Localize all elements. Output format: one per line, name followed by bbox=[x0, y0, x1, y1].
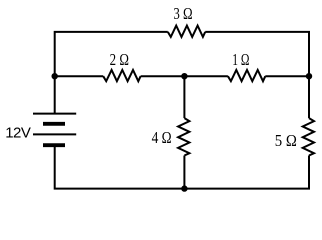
resistor R4 4ohm vertical bbox=[178, 118, 189, 155]
battery plate short thick bbox=[43, 122, 65, 126]
resistor R5 5ohm vertical bbox=[303, 118, 314, 155]
resistor R2 2ohm bbox=[103, 70, 140, 81]
battery plate long top bbox=[33, 113, 76, 115]
svg-text:4 Ω: 4 Ω bbox=[152, 129, 172, 148]
node left junction bbox=[52, 73, 58, 79]
wire middle right segment bbox=[265, 75, 309, 77]
svg-text:12V: 12V bbox=[5, 124, 31, 141]
node middle junction bbox=[181, 73, 187, 79]
node bottom junction bbox=[181, 185, 187, 191]
battery plate short thick bottom bbox=[43, 143, 65, 147]
wire bottom right segment bbox=[184, 156, 309, 189]
resistor R1 1ohm bbox=[228, 70, 265, 81]
node right junction bbox=[306, 73, 312, 79]
svg-text:3 Ω: 3 Ω bbox=[173, 5, 192, 23]
wire battery to bottom-left corner to bottom node bbox=[55, 145, 185, 188]
svg-text:1 Ω: 1 Ω bbox=[232, 51, 249, 70]
wire middle left segment bbox=[55, 75, 103, 77]
resistor R3 3ohm bbox=[168, 26, 205, 37]
wire top-left to 3ohm bbox=[55, 32, 168, 114]
battery plate long bbox=[33, 133, 76, 135]
wire middle center segment bbox=[141, 75, 228, 77]
wire 3ohm to top-right corner down to right node bbox=[205, 32, 309, 118]
svg-text:5 Ω: 5 Ω bbox=[275, 132, 297, 150]
wire middle node down to 4ohm bbox=[183, 76, 185, 118]
svg-text:2 Ω: 2 Ω bbox=[110, 52, 129, 70]
wire 4ohm to bottom node bbox=[183, 156, 185, 189]
